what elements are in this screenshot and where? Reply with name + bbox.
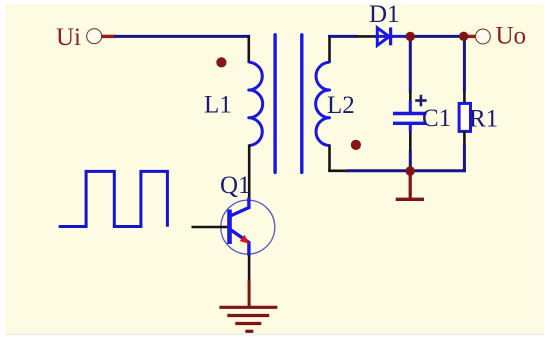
svg-text:Ui: Ui [56, 24, 81, 51]
svg-text:D1: D1 [369, 1, 400, 28]
svg-text:Uo: Uo [496, 23, 527, 50]
svg-text:R1: R1 [469, 106, 498, 133]
svg-text:L1: L1 [204, 91, 232, 118]
svg-text:C1: C1 [422, 105, 451, 132]
svg-text:Q1: Q1 [220, 172, 251, 199]
svg-text:L2: L2 [327, 92, 355, 119]
